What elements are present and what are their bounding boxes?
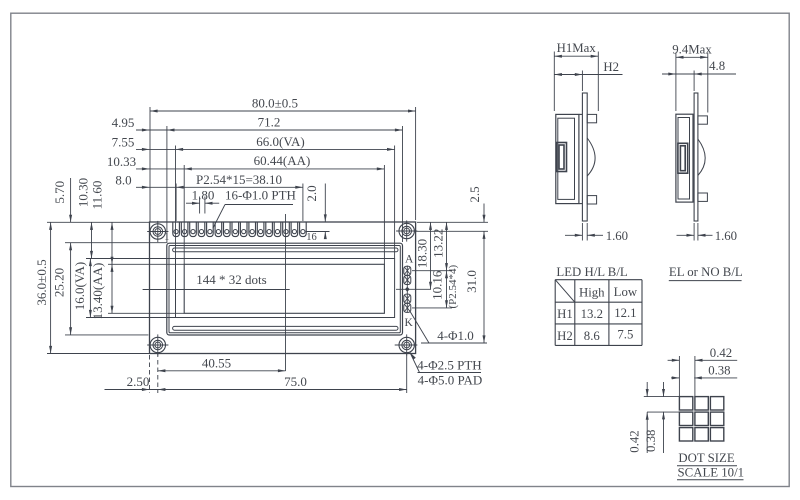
label 4-Φ2.5 PTH with leader (410, 353, 416, 360)
mounting hole top-right (399, 223, 414, 238)
side view 2 body inner (678, 118, 690, 200)
svg-text:4-Φ2.5 PTH: 4-Φ2.5 PTH (417, 358, 481, 373)
side view 2 4.8 extension line (693, 71, 695, 92)
dimension 75.0 (150, 389, 407, 391)
extension line VA right (394, 146, 396, 259)
svg-text:4-Φ5.0 PAD: 4-Φ5.0 PAD (418, 373, 483, 388)
dimension P2.54*15=38.10 (176, 186, 303, 188)
side view 2 1.60 extension lines (693, 223, 695, 241)
table grid (555, 279, 642, 281)
svg-text:13.22: 13.22 (431, 229, 446, 258)
dimension 25.20 (70, 243, 72, 335)
svg-text:13.40(AA): 13.40(AA) (90, 263, 105, 320)
svg-text:8.0: 8.0 (115, 173, 131, 188)
side view 1 H2 extension line (581, 71, 583, 92)
dimension 1.60 view2 (677, 234, 695, 236)
svg-text:71.2: 71.2 (258, 114, 281, 129)
bezel top slot bar (173, 248, 398, 252)
dimension 18.30 (430, 222, 432, 289)
svg-text:5.70: 5.70 (52, 181, 67, 204)
side view 1 body outer (556, 114, 579, 203)
dimension 60.44(AA) (184, 168, 384, 170)
dimension 66.0(VA) (176, 148, 395, 150)
dot pitch 0.42 extension lines (678, 356, 680, 397)
dimension 10.33 (136, 168, 184, 170)
extension line hole bottom-right (406, 353, 408, 394)
extension line bezel right (402, 126, 404, 242)
svg-text:10.30: 10.30 (76, 178, 91, 207)
side view 2 display window box (678, 143, 688, 173)
side view 1 PCB (582, 93, 587, 221)
dimension 80.0±0.5 (150, 110, 416, 112)
svg-text:40.55: 40.55 (202, 356, 231, 371)
svg-text:1.80: 1.80 (192, 187, 215, 202)
horizontal centerline right segment (396, 288, 431, 290)
extension line AA left (183, 165, 185, 264)
extension line pad A right (412, 270, 452, 272)
side view 2 top pin tab (698, 116, 708, 124)
dimension 71.2 (167, 129, 403, 131)
dimension 0.38 horizontal (671, 377, 679, 379)
vertical reference line through display (285, 214, 287, 371)
svg-text:0.42: 0.42 (710, 346, 732, 360)
mounting hole bottom-right (399, 337, 414, 352)
dimension 1.60 view1 (565, 234, 582, 236)
svg-text:10.33: 10.33 (107, 154, 136, 169)
dimension 0.38 vertical (663, 382, 665, 397)
side view 1 bottom pin tab (587, 196, 596, 204)
svg-text:P2.54*15=38.10: P2.54*15=38.10 (196, 172, 282, 187)
svg-text:(P2.54*4): (P2.54*4) (447, 265, 459, 309)
svg-text:10.16: 10.16 (430, 270, 445, 300)
svg-text:Low: Low (614, 285, 638, 299)
svg-text:2.5: 2.5 (467, 186, 482, 202)
svg-text:0.42: 0.42 (628, 430, 642, 452)
extension line PCB top right (417, 221, 488, 223)
side view 2 backlight arc (698, 139, 705, 176)
extension line bezel bottom left (65, 334, 148, 336)
active area AA rectangle (184, 264, 384, 313)
svg-text:66.0(VA): 66.0(VA) (256, 134, 305, 149)
extension line VA left (175, 146, 177, 259)
svg-text:25.20: 25.20 (52, 268, 67, 297)
dimension 13.40(AA) (111, 264, 113, 313)
svg-text:EL or NO B/L: EL or NO B/L (669, 265, 743, 279)
svg-text:H1Max: H1Max (557, 41, 597, 55)
dimension 7.55 (136, 148, 176, 150)
extension line PCB top left (47, 221, 150, 223)
table diagonal (555, 280, 575, 303)
bezel bottom slot bar (173, 326, 398, 330)
PCB outline (150, 222, 416, 354)
pin header pads row (16 pads) (173, 222, 306, 236)
svg-text:0.38: 0.38 (708, 364, 730, 378)
svg-text:11.60: 11.60 (90, 181, 105, 210)
extension line AA top left (108, 263, 184, 265)
dimension H1Max (554, 55, 598, 57)
dimension 2.0 vertical (324, 184, 326, 223)
svg-text:75.0: 75.0 (284, 374, 307, 389)
extension line AA right (383, 165, 385, 264)
svg-text:36.0±0.5: 36.0±0.5 (34, 259, 49, 305)
dimension 10.16 (446, 271, 448, 308)
side view 1 1.60 extension lines (581, 223, 583, 241)
extension line bezel left (166, 126, 168, 243)
side view 1 body inner (558, 118, 575, 199)
dimension 10.30 (91, 222, 93, 258)
dimension 16.0(VA) (89, 259, 91, 318)
svg-text:LED H/L B/L: LED H/L B/L (556, 265, 628, 279)
extension line pad K right (412, 307, 452, 309)
svg-text:60.44(AA): 60.44(AA) (254, 153, 311, 168)
svg-text:H1: H1 (557, 307, 573, 321)
extension line VA top left (86, 258, 176, 260)
dimension 11.60 (111, 222, 113, 264)
side view 2 9.4Max extension lines (675, 53, 677, 112)
dimension 2.5 right (483, 204, 485, 223)
dimension 40.55 (158, 370, 286, 372)
svg-text:High: High (579, 286, 605, 300)
dimension 4.95 (136, 129, 167, 131)
svg-text:7.55: 7.55 (112, 135, 135, 150)
dot pitch 0.42 vertical extension lines (644, 396, 680, 398)
extension line PCB bottom left (47, 353, 150, 355)
dimension 36.0±0.5 (50, 222, 52, 353)
pin holes (16) (174, 230, 178, 234)
dimension 0.42 horizontal (668, 359, 680, 361)
viewing area VA rectangle (176, 259, 395, 318)
side view 2 body outer (676, 114, 693, 202)
svg-text:18.30: 18.30 (415, 239, 430, 268)
svg-text:7.5: 7.5 (617, 328, 633, 342)
extension line pin 1 (175, 184, 177, 222)
svg-text:H2: H2 (557, 329, 573, 343)
svg-text:16-Φ1.0 PTH: 16-Φ1.0 PTH (225, 187, 296, 202)
svg-text:12.1: 12.1 (614, 306, 636, 320)
dimension 4.8 (662, 73, 736, 75)
svg-text:H2: H2 (603, 60, 619, 74)
svg-text:2.0: 2.0 (304, 185, 319, 201)
mounting hole bottom-left (150, 337, 165, 352)
svg-text:80.0±0.5: 80.0±0.5 (252, 96, 298, 111)
svg-text:2.50: 2.50 (127, 374, 150, 389)
svg-text:9.4Max: 9.4Max (672, 43, 712, 57)
side view 1 H1Max extension lines (553, 52, 555, 112)
side view 2 bottom pin tab (698, 193, 708, 201)
svg-text:144 * 32 dots: 144 * 32 dots (196, 272, 266, 287)
side view 2 PCB (694, 93, 698, 221)
bezel inner outline (169, 246, 400, 333)
backlight pads A/K (4 pads + center point) (404, 266, 411, 275)
dimension 2.50 (105, 389, 150, 391)
svg-text:4.95: 4.95 (112, 115, 135, 130)
svg-text:31.0: 31.0 (464, 270, 479, 293)
side view 1 display window box (557, 143, 567, 172)
dimension 31.0 (483, 231, 485, 343)
svg-text:8.6: 8.6 (584, 329, 601, 343)
svg-text:K: K (404, 317, 413, 329)
dimension 5.70 (70, 178, 72, 222)
horizontal centerline left segment (143, 289, 290, 291)
bezel outer outline (167, 243, 403, 335)
extension line pin 16 (302, 184, 304, 222)
dimension H2 (554, 74, 622, 76)
extension line PCB left top (149, 107, 151, 222)
extension line VA bottom left (86, 317, 176, 319)
dimension 8.0 (136, 186, 176, 188)
svg-text:13.2: 13.2 (581, 307, 603, 321)
label 4-Φ1.0 with leader (410, 311, 430, 344)
extension line bezel top left (65, 242, 166, 244)
svg-text:1.60: 1.60 (606, 229, 628, 243)
extension line AA bottom left (108, 312, 184, 314)
svg-text:4-Φ1.0: 4-Φ1.0 (437, 328, 474, 343)
mounting hole top-left (150, 224, 165, 239)
svg-text:SCALE 10/1: SCALE 10/1 (678, 466, 744, 480)
side view 1 top pin tab (587, 114, 596, 122)
dot grid 3x3 (679, 397, 692, 410)
svg-text:1.60: 1.60 (715, 229, 737, 243)
dimension 9.4Max (676, 56, 708, 58)
extension line hole centers top right (415, 230, 488, 232)
dimension 0.42 vertical (646, 382, 648, 397)
extension line PCB left bottom dashed (149, 355, 151, 393)
svg-text:A: A (405, 253, 414, 265)
svg-text:4.8: 4.8 (709, 59, 725, 73)
dimension 13.22 (446, 222, 448, 270)
svg-text:16: 16 (306, 232, 317, 243)
extension line PCB right top (415, 107, 417, 220)
backlight pad column centerline (406, 266, 408, 313)
svg-text:16.0(VA): 16.0(VA) (72, 262, 87, 311)
extension line hole bottom-left dashed (157, 353, 159, 394)
side view 1 backlight arc (587, 138, 595, 176)
svg-text:DOT SIZE: DOT SIZE (678, 451, 734, 465)
svg-text:0.38: 0.38 (644, 430, 658, 452)
